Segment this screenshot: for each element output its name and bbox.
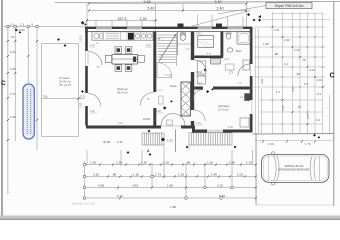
svg-text:2.26: 2.26 [196, 32, 201, 35]
svg-text:1.01: 1.01 [224, 58, 229, 61]
svg-text:30.08: 30.08 [103, 140, 110, 144]
svg-text:2.30: 2.30 [284, 38, 290, 42]
svg-text:2.40: 2.40 [215, 0, 222, 4]
svg-text:1.01: 1.01 [196, 122, 201, 125]
svg-text:2.01: 2.01 [146, 44, 151, 47]
svg-text:OK +0.15: OK +0.15 [59, 83, 71, 87]
svg-text:12: 12 [206, 52, 212, 57]
svg-text:1.46: 1.46 [211, 173, 217, 177]
svg-text:1.0: 1.0 [10, 22, 15, 26]
svg-text:2.3: 2.3 [317, 92, 321, 96]
svg-text:1.9: 1.9 [304, 82, 308, 86]
svg-text:2.32: 2.32 [93, 173, 99, 177]
svg-text:1.10: 1.10 [133, 173, 139, 177]
svg-text:6.46: 6.46 [219, 194, 225, 198]
svg-text:1.38: 1.38 [228, 126, 233, 129]
svg-text:Gepst 7NN 0x0.0m: Gepst 7NN 0x0.0m [275, 4, 304, 8]
svg-text:1.1: 1.1 [276, 90, 280, 94]
svg-text:1.01: 1.01 [317, 78, 323, 82]
svg-text:2.40: 2.40 [217, 7, 224, 11]
svg-text:1.01: 1.01 [167, 139, 173, 143]
svg-text:3.13: 3.13 [197, 82, 202, 85]
svg-text:3.10: 3.10 [217, 184, 223, 188]
svg-text:1.4: 1.4 [316, 118, 320, 122]
svg-text:2.35: 2.35 [229, 161, 235, 165]
svg-text:.756: .756 [42, 95, 48, 99]
svg-text:1.10: 1.10 [246, 161, 252, 165]
svg-text:1.13: 1.13 [294, 48, 300, 52]
svg-text:1.3: 1.3 [20, 22, 25, 26]
svg-text:.9: .9 [31, 22, 34, 26]
svg-text:1.135: 1.135 [79, 35, 83, 42]
svg-text:1.96: 1.96 [170, 205, 176, 209]
svg-text:.98: .98 [186, 161, 191, 165]
svg-text:1.01: 1.01 [90, 44, 95, 47]
svg-text:.76: .76 [302, 58, 306, 62]
svg-text:1.60: 1.60 [167, 184, 173, 188]
svg-text:1.01: 1.01 [237, 173, 243, 177]
svg-text:2.30: 2.30 [10, 67, 16, 71]
svg-text:1.10: 1.10 [178, 173, 184, 177]
svg-text:5.28: 5.28 [281, 105, 285, 111]
svg-text:9.38: 9.38 [144, 0, 151, 4]
svg-text:1.01: 1.01 [274, 28, 280, 32]
svg-text:4.28: 4.28 [98, 184, 104, 188]
svg-text:HWR: HWR [143, 117, 151, 121]
svg-text:.98: .98 [112, 173, 117, 177]
svg-text:9.11: 9.11 [117, 194, 123, 198]
svg-text:Maßstab 1:100 EG: Maßstab 1:100 EG [72, 202, 95, 206]
svg-text:287.5: 287.5 [118, 17, 127, 21]
svg-text:28.6 m2: 28.6 m2 [117, 91, 128, 95]
svg-text:3.63: 3.63 [132, 184, 138, 188]
svg-text:.64: .64 [296, 72, 300, 76]
svg-text:1.38: 1.38 [10, 115, 16, 119]
svg-text:5.74: 5.74 [10, 92, 16, 96]
svg-text:13.9 m2: 13.9 m2 [218, 108, 229, 112]
svg-text:1.10: 1.10 [207, 161, 213, 165]
svg-text:Diele: Diele [170, 84, 177, 88]
svg-text:1.26: 1.26 [156, 110, 161, 113]
svg-text:1.2: 1.2 [284, 62, 288, 66]
svg-text:2.96: 2.96 [268, 142, 274, 146]
svg-text:1.26: 1.26 [140, 17, 147, 21]
svg-text:1.35: 1.35 [90, 161, 96, 165]
svg-text:2.46: 2.46 [117, 140, 123, 144]
svg-text:2.26: 2.26 [79, 102, 83, 108]
svg-text:.76: .76 [10, 35, 15, 39]
svg-text:2.30: 2.30 [90, 110, 95, 113]
svg-text:1.73: 1.73 [155, 173, 161, 177]
svg-text:5.40: 5.40 [148, 7, 155, 11]
svg-text:2.14: 2.14 [309, 68, 315, 72]
svg-text:17 stg: 17 stg [165, 74, 172, 77]
svg-text:1.76: 1.76 [305, 142, 311, 146]
svg-text:1.18: 1.18 [116, 161, 122, 165]
svg-text:C: C [1, 80, 6, 87]
svg-text:4.13: 4.13 [118, 122, 123, 125]
svg-text:ABSTELLPLATZ: ABSTELLPLATZ [284, 164, 304, 168]
svg-text:.76: .76 [297, 105, 301, 109]
svg-text:Bad: Bad [236, 49, 242, 53]
svg-text:C: C [330, 73, 335, 80]
svg-text:1.01: 1.01 [10, 50, 16, 54]
svg-text:4.13: 4.13 [291, 86, 295, 92]
svg-text:1.10: 1.10 [141, 161, 147, 165]
svg-text:.89: .89 [274, 52, 278, 56]
svg-text:1.38: 1.38 [263, 42, 269, 46]
svg-text:2.26: 2.26 [306, 113, 310, 119]
svg-text:1.10: 1.10 [163, 161, 169, 165]
svg-text:WOHNWAGEN BEIFAHRZ.: WOHNWAGEN BEIFAHRZ. [278, 168, 310, 172]
svg-text:+0.00: +0.00 [17, 28, 25, 32]
svg-text:2.01: 2.01 [260, 78, 264, 84]
